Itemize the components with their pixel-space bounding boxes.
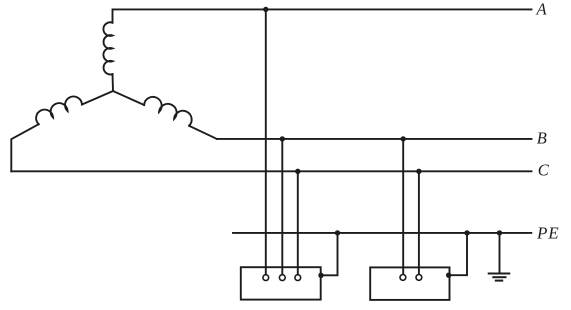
- winding L3 (phase C coil, left diagonal): [82, 91, 113, 105]
- svg-text:A: A: [536, 0, 548, 19]
- svg-text:PE: PE: [536, 223, 560, 242]
- node: box 2 PE terminal: [446, 273, 451, 278]
- wire drop C to socket box 2: [418, 171, 420, 274]
- node: box 1 PE terminal: [318, 273, 323, 278]
- socket terminal circles box 1: [263, 275, 422, 281]
- wire drop C to socket box 1: [297, 171, 299, 274]
- winding L1 (phase A coil): [103, 22, 112, 74]
- node: B tap 1: [280, 136, 285, 141]
- phase line A: [113, 8, 532, 10]
- node: PE tap 2: [464, 230, 469, 235]
- wire from winding L1 to star point N: [112, 74, 115, 91]
- node: B tap 2: [401, 136, 406, 141]
- winding L2 (phase B coil, right diagonal): [113, 91, 144, 105]
- phase line C: [11, 170, 531, 172]
- wire drop B to socket box 2: [402, 139, 404, 274]
- socket box 1: [241, 267, 321, 299]
- node: C tap 2: [416, 169, 421, 174]
- ground wire: [499, 233, 501, 274]
- wire from winding L3 to line C: [11, 124, 38, 171]
- node: PE ground tap: [497, 230, 502, 235]
- socket box 2: [370, 267, 449, 300]
- socket terminal circles box 2: [400, 275, 406, 281]
- wire drop A to socket box 1: [265, 9, 267, 274]
- PE tap wire from box 1: [321, 233, 338, 275]
- svg-text:C: C: [538, 161, 550, 180]
- earth ground symbol: [488, 274, 511, 281]
- node: A tap: [263, 7, 268, 12]
- wire drop B to socket box 1: [281, 139, 283, 274]
- node: C tap 1: [295, 169, 300, 174]
- wire from winding L2 to line B: [189, 126, 217, 139]
- svg-text:B: B: [537, 129, 547, 148]
- phase line B: [217, 138, 532, 140]
- wire from winding L1 to line A: [112, 9, 115, 22]
- node: PE tap 1: [335, 230, 340, 235]
- PE line: [233, 232, 531, 234]
- PE tap wire from box 2: [449, 233, 467, 275]
